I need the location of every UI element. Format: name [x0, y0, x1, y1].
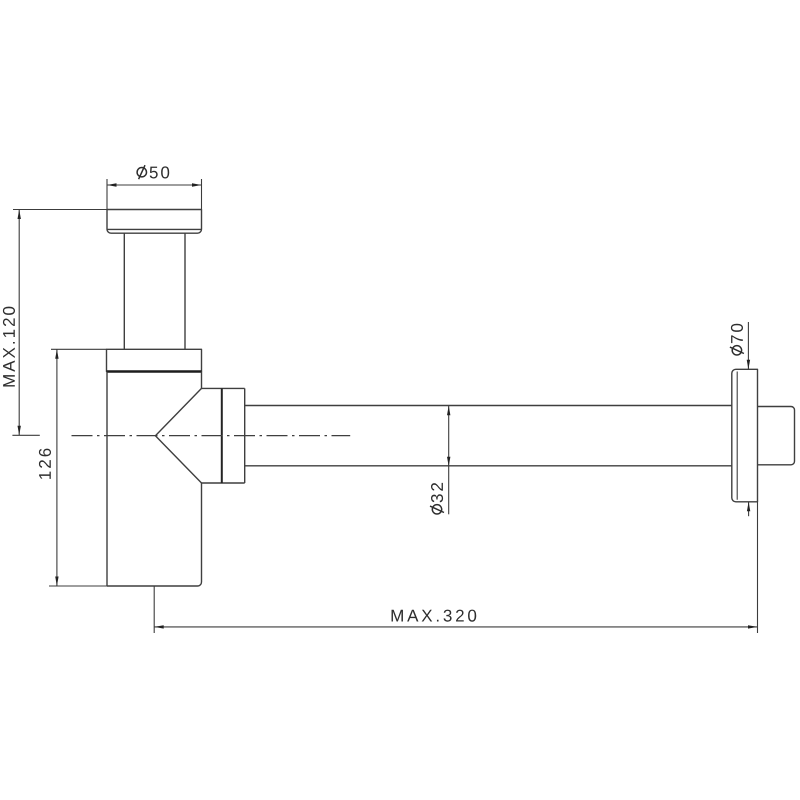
dim Phi50 extension line left: [106, 179, 108, 210]
arrow 126 bottom: [55, 577, 58, 587]
dim Phi32 dimension line: [448, 406, 450, 515]
dim MAX.320 left extension line: [153, 586, 155, 633]
wall pipe stub: [758, 407, 795, 465]
arrow Phi50 left: [107, 183, 117, 186]
label MAX.120 text (rotated): [3, 307, 15, 387]
arrow MAX.120 top: [18, 210, 21, 220]
label Phi50 diameter symbol: [137, 165, 146, 179]
dim Phi70 lower arrow tail: [748, 502, 750, 516]
label 126 text (rotated): [39, 449, 51, 479]
dim 126 bottom extension line: [49, 585, 107, 587]
arrow Phi50 right: [192, 183, 202, 186]
vertical inlet pipe wall left: [123, 233, 125, 349]
tee collar bottom line: [202, 482, 245, 484]
arrow Phi32 top: [447, 406, 450, 416]
horizontal outlet pipe bottom wall: [245, 465, 732, 467]
label Phi50 text: [150, 166, 170, 178]
label Phi32 text (rotated): [431, 483, 443, 503]
dim Phi50 dimension line: [107, 184, 202, 186]
arrow MAX.120 bottom: [18, 426, 21, 436]
dim MAX.120 top extension line: [13, 209, 107, 211]
arrow 126 top: [55, 349, 58, 359]
dim Phi50 extension line right: [201, 179, 203, 210]
body top nut thick bottom line: [107, 370, 202, 372]
dim MAX.320 right extension line: [757, 502, 759, 633]
dim Phi70 upper dimension line: [747, 322, 749, 369]
dim 126 dimension line: [56, 349, 58, 586]
top flange inner line: [107, 228, 202, 230]
tee ring right edge: [244, 388, 246, 483]
tee collar top line: [202, 387, 245, 389]
label Phi32 diameter symbol (rotated): [430, 505, 444, 514]
arrow Phi70 top: [747, 360, 750, 370]
label Phi70 diameter symbol (rotated): [730, 346, 744, 355]
dim MAX.120 bottom extension tick: [12, 434, 39, 436]
wall flange (rosette): [732, 369, 758, 502]
horizontal outlet pipe top wall: [245, 405, 732, 407]
tee cone diagonals: [155, 388, 201, 483]
dim MAX.120 dimension line: [18, 210, 20, 436]
dim MAX.320 dimension line: [154, 626, 757, 628]
label MAX.320 text: [392, 610, 477, 622]
centerline (dash-dot axis): [72, 435, 351, 437]
wall flange inner edge line: [736, 372, 738, 500]
dim 126 top extension line: [51, 348, 107, 350]
arrow MAX.320 left: [154, 625, 164, 628]
arrow Phi32 bottom: [447, 457, 450, 467]
trap body outline: [107, 372, 202, 587]
body top nut: [107, 349, 202, 371]
tee collar vertical divider: [221, 388, 223, 483]
label Phi70 text (rotated): [731, 324, 743, 343]
top flange (tailpiece cap): [107, 210, 202, 234]
arrow Phi70 bottom: [747, 502, 750, 512]
vertical inlet pipe wall right: [184, 233, 186, 349]
arrow MAX.320 right: [748, 625, 758, 628]
